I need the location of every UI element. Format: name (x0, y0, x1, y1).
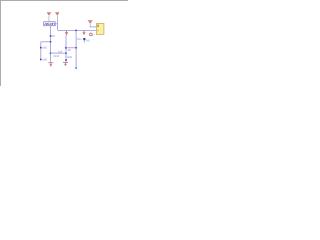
net label square N6 (83, 38, 85, 40)
wire A horizontal (90, 26, 97, 28)
net label square N2 (40, 47, 42, 49)
ground flag G1 (48, 62, 53, 66)
svg-text:aN3: aN3 (43, 59, 48, 62)
wire left vertical (40, 42, 42, 60)
pin U1 right (55, 23, 57, 25)
stub to ground G2 (65, 61, 67, 62)
window top border (0, 0, 128, 1)
svg-text:C104: C104 (53, 55, 59, 58)
power flag VCC3 (88, 20, 93, 27)
red net arrow on wire B at x66.5 (65, 31, 69, 35)
wire horizontal y47.8 (66, 47, 76, 49)
net label square N5 (65, 59, 67, 61)
background (0, 0, 128, 86)
svg-text:1u4: 1u4 (58, 50, 63, 53)
svg-text:AB123H: AB123H (44, 22, 54, 26)
wire B horizontal (58, 29, 97, 31)
wire horizontal y41.8 (41, 41, 51, 43)
power flag VCC1 (47, 12, 51, 21)
wire chain to lower square (65, 49, 67, 60)
svg-text:aN2: aN2 (42, 47, 47, 50)
power flag VCC2 (55, 12, 59, 20)
net label square N4 (65, 47, 67, 49)
wire U1 bottom vertical (50, 26, 52, 63)
svg-text:C2u: C2u (77, 38, 82, 41)
stub below N6 (83, 40, 85, 42)
wire vertical chain x65.9 (65, 35, 67, 48)
component U1 (blue box with label) (44, 22, 56, 26)
ground flag G2 (63, 62, 68, 66)
junction dot on wire B (75, 30, 77, 32)
junction dot (50, 41, 52, 43)
wire vertical from VCC2 to corner (57, 20, 59, 30)
junction dot at wire47.8 (75, 47, 77, 49)
net label square N1 (50, 35, 52, 37)
red net arrow on wire B at x84.3 (82, 31, 85, 35)
window left border (0, 0, 1, 86)
wire vertical x76.1 (75, 30, 77, 68)
connector P1 (yellow box) (97, 23, 104, 34)
net label square N3 (40, 59, 42, 61)
red circle flag at x90.8 (90, 33, 93, 36)
junction dot chain/wire53 (65, 52, 67, 54)
svg-text:1u0F: 1u0F (67, 56, 73, 59)
endpoint square x76 (75, 67, 76, 68)
wire horizontal y53 (51, 52, 66, 54)
junction dot wire53 (50, 52, 52, 54)
